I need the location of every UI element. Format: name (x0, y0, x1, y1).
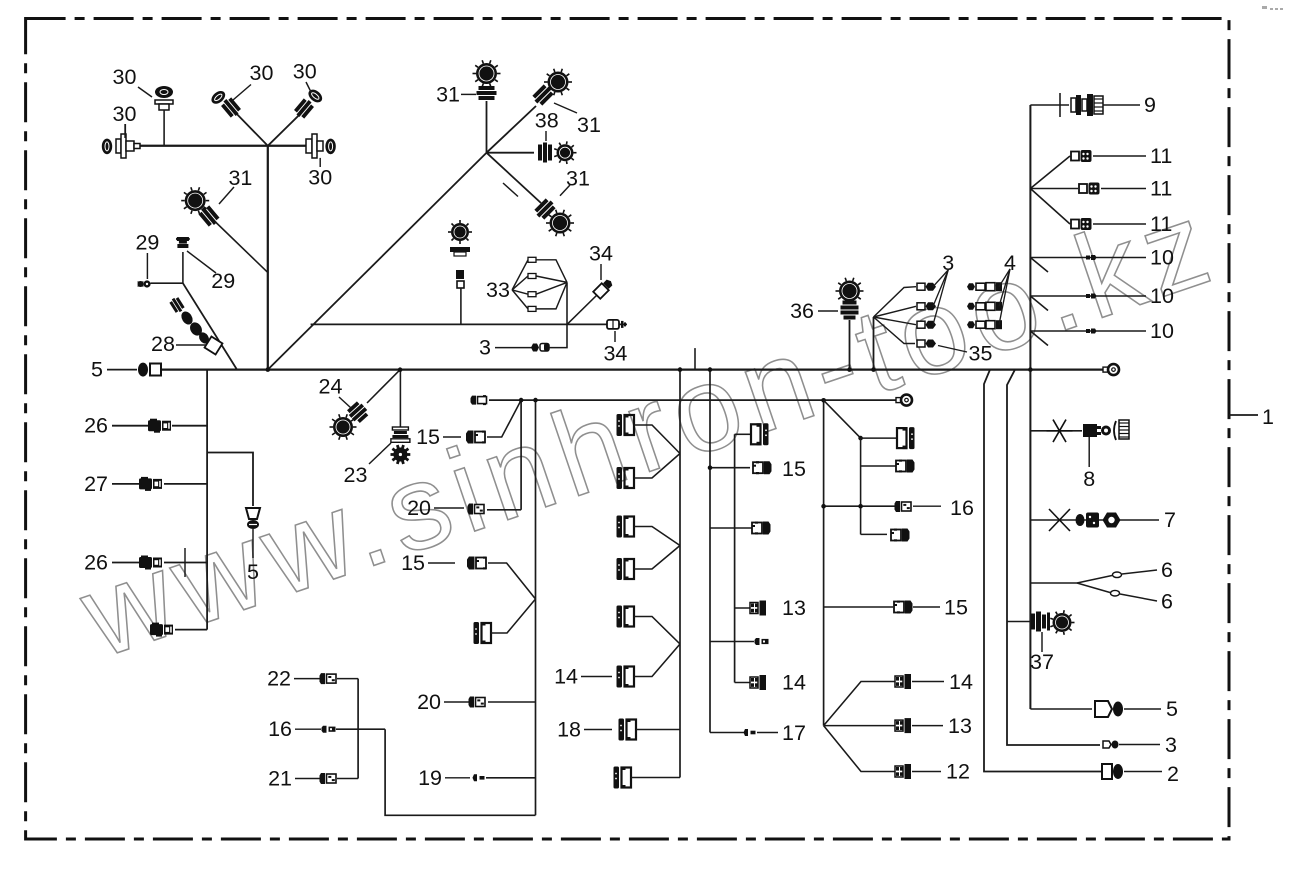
svg-text:11: 11 (1150, 212, 1172, 236)
svg-text:21: 21 (268, 767, 292, 791)
svg-text:35: 35 (969, 342, 993, 366)
svg-text:15: 15 (782, 457, 806, 481)
svg-text:9: 9 (1144, 93, 1156, 117)
svg-text:13: 13 (782, 596, 806, 620)
svg-text:15: 15 (401, 551, 425, 575)
svg-text:14: 14 (782, 671, 806, 695)
svg-text:3: 3 (479, 336, 491, 360)
svg-text:8: 8 (1083, 467, 1095, 491)
svg-text:37: 37 (1030, 650, 1054, 674)
svg-text:1: 1 (1262, 405, 1274, 429)
svg-text:5: 5 (1166, 697, 1178, 721)
svg-text:20: 20 (417, 690, 441, 714)
svg-text:11: 11 (1150, 144, 1172, 168)
svg-text:15: 15 (416, 425, 440, 449)
svg-text:6: 6 (1161, 590, 1173, 614)
svg-text:13: 13 (948, 714, 972, 738)
svg-text:19: 19 (418, 766, 442, 790)
svg-text:10: 10 (1150, 319, 1174, 343)
svg-text:30: 30 (308, 166, 332, 190)
svg-text:10: 10 (1150, 246, 1174, 270)
svg-text:31: 31 (228, 166, 252, 190)
svg-text:2: 2 (1167, 762, 1179, 786)
svg-text:38: 38 (535, 109, 559, 133)
svg-text:29: 29 (135, 230, 159, 254)
svg-text:26: 26 (84, 551, 108, 575)
svg-text:31: 31 (566, 167, 590, 191)
svg-text:31: 31 (436, 83, 460, 107)
svg-text:17: 17 (782, 721, 806, 745)
svg-text:18: 18 (557, 718, 581, 742)
svg-text:16: 16 (950, 496, 974, 520)
svg-text:30: 30 (250, 61, 274, 85)
svg-text:31: 31 (577, 113, 601, 137)
svg-text:7: 7 (1164, 508, 1176, 532)
svg-text:27: 27 (84, 472, 108, 496)
svg-text:14: 14 (949, 670, 973, 694)
svg-text:10: 10 (1150, 284, 1174, 308)
svg-text:34: 34 (589, 241, 613, 265)
svg-text:26: 26 (84, 414, 108, 438)
svg-text:5: 5 (91, 358, 103, 382)
svg-text:23: 23 (344, 463, 368, 487)
svg-text:30: 30 (293, 60, 317, 84)
svg-text:20: 20 (407, 496, 431, 520)
svg-text:5: 5 (247, 560, 259, 584)
svg-text:16: 16 (268, 717, 292, 741)
svg-text:24: 24 (319, 375, 343, 399)
svg-text:11: 11 (1150, 177, 1172, 201)
svg-text:36: 36 (790, 299, 814, 323)
svg-text:28: 28 (151, 332, 175, 356)
svg-text:30: 30 (113, 65, 137, 89)
svg-text:30: 30 (113, 102, 137, 126)
svg-text:14: 14 (554, 665, 578, 689)
svg-text:6: 6 (1161, 558, 1173, 582)
svg-text:12: 12 (946, 760, 970, 784)
svg-text:34: 34 (603, 341, 627, 365)
svg-text:33: 33 (486, 278, 510, 302)
svg-text:3: 3 (1165, 733, 1177, 757)
svg-text:15: 15 (944, 596, 968, 620)
svg-text:22: 22 (267, 667, 291, 691)
